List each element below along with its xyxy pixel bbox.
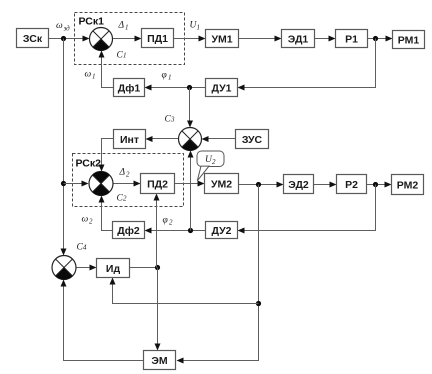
wire ДУ1 to ДФ1 [145, 85, 206, 91]
node phi2 [188, 228, 193, 233]
wire УМ2 to ЭД2 [239, 182, 284, 188]
wire feedback Р2 to ДУ2 [238, 185, 376, 234]
svg-text:2: 2 [126, 171, 130, 179]
summing junction C4 [52, 256, 76, 280]
svg-text:ДУ2: ДУ2 [212, 225, 232, 237]
wire left trunk down to C4 [61, 39, 67, 256]
callout U2 [197, 151, 224, 181]
block Р1 [336, 30, 368, 48]
wire ЗСк to РСк1 [49, 36, 90, 42]
wire Р1 to РМ1 [368, 36, 393, 42]
wire ПД2 to УМ2 [175, 181, 205, 187]
svg-text:1: 1 [123, 52, 127, 60]
svg-text:1: 1 [92, 73, 96, 81]
wire ЭМ out to C4 bottom [61, 280, 144, 361]
wire ЭД2 to Р2 [314, 182, 337, 188]
block ДУ1 [206, 79, 238, 97]
svg-text:1: 1 [125, 24, 129, 32]
svg-text:ЭД1: ЭД1 [288, 33, 309, 45]
block ЭД2 [284, 175, 314, 194]
svg-text:φ: φ [162, 71, 167, 81]
block ДУ2 [206, 222, 238, 239]
svg-text:2: 2 [123, 195, 127, 203]
node after УМ2 [256, 182, 261, 187]
wire РСк2 to ПД2 [114, 181, 141, 187]
svg-text:1: 1 [197, 24, 201, 32]
svg-text:РСк2: РСк2 [76, 158, 102, 170]
dashed group box РСк1 [75, 13, 185, 65]
wire Р2 to РМ2 [367, 182, 392, 188]
svg-text:ω: ω [56, 21, 63, 31]
label C2 [117, 194, 128, 204]
label C4 [77, 243, 88, 253]
wire Ид to node [130, 267, 158, 269]
block Ид [97, 259, 130, 278]
svg-text:РМ2: РМ2 [397, 179, 419, 191]
label phi2 [163, 216, 174, 227]
block Инт [114, 130, 146, 149]
dashed group box РСк2 [73, 154, 184, 207]
block РМ2 [392, 175, 424, 195]
label РСк1 [79, 16, 105, 28]
wire ДУ2 to ДФ2 [145, 228, 206, 234]
label omega2 [82, 215, 94, 226]
svg-text:ЭД2: ЭД2 [288, 179, 309, 191]
svg-text:2: 2 [89, 218, 93, 226]
svg-text:РМ1: РМ1 [398, 34, 420, 46]
node after ЗСк [61, 36, 66, 41]
block УМ1 [206, 30, 239, 48]
svg-text:3: 3 [170, 116, 175, 124]
svg-text:2: 2 [169, 219, 173, 227]
label C1 [117, 51, 127, 61]
svg-text:ЭМ: ЭМ [151, 355, 167, 367]
svg-text:2: 2 [212, 158, 216, 166]
node branch to Ид [256, 301, 261, 306]
svg-text:ω: ω [85, 70, 92, 80]
summing junction РСк1 [90, 28, 113, 51]
svg-text:Р2: Р2 [345, 179, 358, 191]
wire РСк1 to ПД1 [113, 36, 142, 42]
wire УМ1 to ЭД1 [239, 36, 282, 42]
svg-text:ПД2: ПД2 [147, 178, 168, 190]
block ЗУС [236, 130, 269, 149]
block Р2 [337, 175, 367, 194]
wire ЭД1 to Р1 [315, 36, 336, 42]
label Delta2 [119, 168, 131, 179]
wire Инт to РСк2 top [99, 139, 114, 172]
wire УМ2 branch down to ЭМ right [177, 185, 259, 364]
label omega_zd [56, 21, 70, 33]
block ДФ2 [113, 222, 145, 239]
label U1 [190, 21, 201, 32]
svg-text:Δ: Δ [118, 21, 125, 31]
svg-text:Р1: Р1 [345, 33, 358, 45]
svg-text:УМ1: УМ1 [211, 33, 232, 45]
wire phi1 down to C3 [187, 88, 193, 128]
svg-text:1: 1 [168, 74, 172, 82]
label РСк2 [76, 158, 102, 170]
block ПД2 [141, 174, 175, 194]
wire C3 to Инт [146, 136, 179, 142]
block РМ1 [393, 31, 425, 49]
svg-text:Δ: Δ [119, 168, 126, 178]
wire ЗУС to C3 [202, 136, 236, 142]
block ЭМ [144, 351, 176, 370]
label phi1 [162, 71, 172, 82]
label Delta1 [118, 21, 129, 32]
svg-text:УМ2: УМ2 [211, 178, 232, 190]
block ДФ1 [114, 79, 145, 97]
block УМ2 [205, 174, 239, 194]
svg-text:зд: зд [63, 25, 71, 33]
svg-text:Ид: Ид [106, 263, 121, 275]
node after Р1 [373, 36, 378, 41]
svg-text:Инт: Инт [120, 134, 139, 146]
svg-text:ПД1: ПД1 [147, 33, 168, 45]
svg-text:4: 4 [83, 244, 87, 252]
block ПД1 [142, 29, 174, 48]
wire ПД1 to УМ1 [174, 36, 206, 42]
svg-text:Дф1: Дф1 [118, 82, 141, 94]
wire node down to ЭМ top [155, 268, 161, 351]
summing junction РСк2 [89, 171, 113, 195]
node trunk to РСк2 [61, 181, 66, 186]
svg-text:φ: φ [163, 216, 168, 226]
block ЗСк [17, 29, 49, 48]
svg-text:Дф2: Дф2 [117, 225, 140, 237]
wire C4 to Ид [77, 265, 97, 271]
wire phi2 up to C3 [188, 151, 194, 231]
svg-text:ЗУС: ЗУС [242, 134, 263, 146]
svg-text:ДУ1: ДУ1 [212, 82, 232, 94]
summing junction C3 [179, 128, 202, 151]
wire node up to ПД2 bottom [154, 194, 160, 268]
svg-text:ω: ω [82, 215, 89, 225]
block ЭД1 [282, 30, 315, 48]
wire branch to Ид bottom [110, 278, 259, 304]
node after Р2 [373, 182, 378, 187]
label omega1 [85, 70, 96, 81]
wire ДФ2 to РСк2 bottom [99, 196, 113, 231]
node phi1 [187, 85, 192, 90]
wire trunk to РСк2 [64, 181, 89, 187]
svg-text:ЗСк: ЗСк [23, 33, 43, 45]
svg-text:РСк1: РСк1 [79, 16, 105, 28]
wire feedback Р1 to ДУ1 [238, 39, 376, 91]
label C3 [165, 115, 176, 125]
wire ДФ1 to РСк1 [99, 51, 114, 88]
node after Ид [155, 265, 160, 270]
